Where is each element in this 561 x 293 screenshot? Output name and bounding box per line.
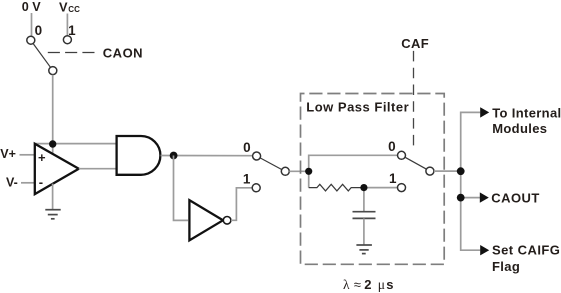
svg-text:CAON: CAON <box>103 46 143 61</box>
svg-text:2: 2 <box>364 277 371 292</box>
svg-text:0: 0 <box>388 139 396 154</box>
svg-text:V: V <box>59 0 68 15</box>
svg-text:To Internal: To Internal <box>492 106 561 121</box>
svg-text:1: 1 <box>243 171 251 186</box>
svg-text:λ: λ <box>343 277 350 292</box>
svg-text:Modules: Modules <box>492 121 547 136</box>
svg-text:0: 0 <box>243 140 251 155</box>
svg-text:Flag: Flag <box>492 259 520 274</box>
svg-text:V+: V+ <box>0 147 16 161</box>
svg-text:-: - <box>39 174 43 189</box>
svg-text:+: + <box>38 150 46 165</box>
svg-text:μ: μ <box>378 277 385 292</box>
svg-text:≈: ≈ <box>354 277 361 292</box>
svg-text:0: 0 <box>35 23 43 38</box>
svg-text:CAOUT: CAOUT <box>491 191 539 206</box>
svg-text:Low Pass Filter: Low Pass Filter <box>306 99 409 114</box>
svg-text:CAF: CAF <box>401 36 429 51</box>
svg-text:0 V: 0 V <box>22 0 42 14</box>
svg-text:Set CAIFG: Set CAIFG <box>492 242 560 257</box>
svg-text:V-: V- <box>6 175 18 189</box>
svg-text:s: s <box>386 277 393 292</box>
svg-text:1: 1 <box>389 171 397 186</box>
svg-text:CC: CC <box>68 5 80 14</box>
